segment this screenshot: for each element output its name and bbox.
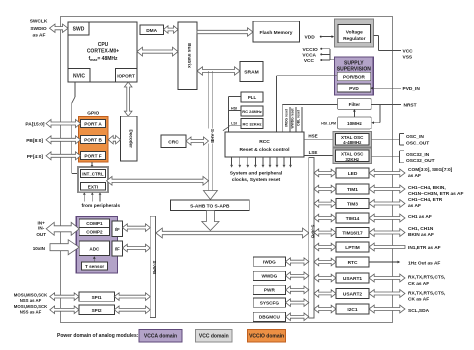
svg-text:CH1 as AF: CH1 as AF	[408, 214, 432, 220]
wire bus to USART1	[314, 274, 336, 282]
svg-text:HSI: HSI	[231, 107, 237, 111]
svg-text:ADC: ADC	[89, 246, 100, 251]
svg-text:INT_CTRL: INT_CTRL	[82, 172, 104, 177]
pin VDD	[305, 34, 335, 40]
USART2 block	[336, 289, 369, 299]
svg-text:NVIC: NVIC	[73, 74, 85, 80]
pins of USART2	[369, 290, 446, 303]
GPIO group label	[87, 111, 99, 117]
RC 32KHz block	[241, 119, 263, 129]
svg-text:OUT: OUT	[36, 232, 46, 237]
svg-text:POR/BOR: POR/BOR	[343, 75, 365, 80]
label HSI	[231, 107, 237, 111]
ADC I/F block	[112, 241, 123, 256]
pin labels IN+ IN- OUT	[36, 221, 46, 237]
svg-text:from peripherals: from peripherals	[82, 203, 121, 209]
COMP2 block	[79, 227, 109, 235]
svg-text:SWCLK: SWCLK	[30, 19, 48, 25]
bus S-AHB vertical	[203, 71, 217, 200]
svg-text:32KHz: 32KHz	[345, 157, 360, 162]
svg-text:VCCIO domain: VCCIO domain	[249, 334, 284, 340]
svg-text:CH1N~CH3N, ETR as AF: CH1N~CH3N, ETR as AF	[408, 191, 463, 197]
wire CPU to bus matrix	[137, 47, 178, 56]
wire SPI1 to bus	[114, 293, 150, 301]
pins VCCIO VCCA VCC	[302, 47, 334, 64]
pin VCC VSS output	[374, 36, 413, 61]
WWDG block	[253, 271, 285, 280]
svg-text:PLL: PLL	[248, 95, 257, 100]
svg-text:USART1: USART1	[343, 276, 363, 282]
svg-text:LSE: LSE	[309, 150, 318, 155]
svg-text:VCC domain: VCC domain	[199, 334, 229, 340]
svg-text:NRST: NRST	[404, 102, 417, 108]
pins of I2C1	[369, 305, 430, 314]
TIM16/17 block	[336, 228, 369, 238]
svg-text:Flash Memory: Flash Memory	[260, 30, 293, 36]
svg-text:RX,TX,RTS,CTS,: RX,TX,RTS,CTS,	[408, 274, 446, 280]
COMP1 block	[79, 219, 109, 227]
svg-text:TIM3: TIM3	[347, 202, 358, 208]
DBGMCU block	[253, 312, 285, 321]
wire bus to TIM14	[314, 214, 336, 222]
pins of RTC	[369, 261, 440, 267]
XTAL OSC 4-48MHz block	[333, 131, 372, 147]
svg-text:SPI1: SPI1	[92, 295, 102, 300]
wire COMP I/F to bus	[123, 224, 151, 232]
svg-text:S-APB: S-APB	[152, 261, 157, 275]
svg-text:MOSI,MISO,SCK: MOSI,MISO,SCK	[14, 304, 48, 309]
PORT F block	[81, 152, 106, 160]
wire PORT F pins arrow	[46, 152, 81, 160]
wire S-APB horizontal arrow	[156, 228, 309, 238]
svg-text:RX,TX,RTS,CTS,: RX,TX,RTS,CTS,	[408, 290, 446, 296]
SWD block	[68, 22, 89, 35]
SUPPLY SUPERVISION container	[334, 57, 373, 95]
svg-text:S-AHB TO S-APB: S-AHB TO S-APB	[190, 204, 230, 210]
legend caption	[57, 333, 139, 339]
SYSCFG block	[253, 298, 285, 307]
svg-text:DMA: DMA	[146, 28, 157, 34]
wire ADC I/F to bus	[123, 244, 151, 252]
PORT B block	[81, 136, 106, 144]
svg-text:PORT B: PORT B	[84, 138, 102, 143]
CRC block	[161, 135, 186, 148]
PWR block	[253, 285, 285, 294]
SRAM block	[240, 62, 263, 82]
wire bus to TIM16/17	[314, 229, 336, 237]
svg-text:OSC_IN: OSC_IN	[406, 134, 424, 140]
legend VCC domain	[196, 330, 233, 343]
wires system clocks arrows	[230, 157, 292, 168]
pins of LPTIM	[369, 243, 441, 251]
svg-text:PA[15:0]: PA[15:0]	[25, 122, 45, 128]
wire SPI2 to bus	[114, 306, 150, 314]
svg-text:RC 24MHz: RC 24MHz	[242, 109, 262, 114]
wire bus to TIM3	[314, 200, 336, 208]
wire 10MHz tap to NRST line	[371, 104, 380, 124]
Voltage Regulator block	[334, 19, 373, 47]
Bus matrix	[178, 22, 197, 90]
svg-text:WWDG reset: WWDG reset	[291, 108, 295, 129]
wire CRC to S-AHB	[186, 137, 209, 145]
svg-text:I/F: I/F	[115, 227, 120, 232]
pin NRST	[371, 102, 416, 108]
PVD block	[337, 84, 371, 92]
svg-text:SUPERVISION: SUPERVISION	[337, 67, 371, 73]
wire ADC input big arrow	[50, 240, 79, 255]
INT_CTRL EXTI grey container	[78, 167, 108, 192]
svg-text:Filter: Filter	[349, 102, 361, 107]
svg-text:LPTIM: LPTIM	[345, 245, 359, 251]
POR/BOR block	[337, 72, 371, 81]
svg-text:System and peripheral: System and peripheral	[230, 170, 283, 176]
IWDG block	[253, 257, 285, 266]
svg-text:CK as AF: CK as AF	[408, 296, 429, 302]
wire WWDG to bus	[286, 272, 309, 280]
wire PWR to bus	[286, 286, 309, 294]
bus S-APB left	[150, 216, 157, 317]
RCC block	[225, 132, 304, 157]
SPI2 block	[79, 305, 114, 314]
GPIO orange container	[78, 117, 108, 163]
label HSE	[308, 134, 317, 139]
svg-text:S-AHB: S-AHB	[210, 129, 215, 143]
wire bus to RTC	[314, 258, 336, 266]
svg-text:IWDG: IWDG	[263, 259, 276, 264]
wire DBGMCU to bus	[286, 313, 309, 321]
svg-text:WWDG: WWDG	[261, 274, 277, 279]
svg-text:IOPORT: IOPORT	[117, 74, 135, 79]
svg-text:CH1, CH1N: CH1, CH1N	[408, 226, 434, 232]
svg-text:HSE: HSE	[308, 134, 317, 139]
svg-text:DBGMCU: DBGMCU	[259, 315, 281, 320]
svg-text:IN-: IN-	[38, 226, 45, 231]
wire IOPORT to Decoder	[124, 82, 132, 116]
svg-text:SCL,SDA: SCL,SDA	[408, 308, 430, 314]
svg-text:10MHz: 10MHz	[347, 121, 363, 126]
svg-text:IWDG reset: IWDG reset	[285, 108, 289, 127]
HSI 10MHz osc block	[338, 117, 372, 129]
label LSE	[309, 150, 318, 155]
Flash Memory block	[253, 21, 300, 42]
wire NVIC to INT_CTRL	[72, 82, 78, 174]
svg-text:GPIO: GPIO	[87, 111, 99, 117]
svg-text:TIM1: TIM1	[347, 187, 358, 193]
svg-text:USART2: USART2	[343, 292, 363, 298]
svg-text:Decoder: Decoder	[128, 130, 133, 149]
svg-text:BKIN as AF: BKIN as AF	[408, 232, 434, 238]
svg-text:Regulator: Regulator	[343, 36, 366, 42]
svg-text:VCCA: VCCA	[302, 52, 316, 58]
labels IWDG WWDG OBL reset	[285, 108, 301, 129]
wire GPIO to INT_CTRL	[91, 162, 94, 167]
RC 24MHz block	[241, 106, 263, 116]
svg-text:I/F: I/F	[115, 246, 120, 251]
NVIC block	[68, 69, 90, 83]
pins of TIM14	[369, 214, 432, 222]
svg-text:SYSCFG: SYSCFG	[260, 300, 280, 305]
svg-text:Voltage: Voltage	[346, 30, 363, 36]
pin label 10xIN	[33, 246, 46, 251]
wire DMA to bus matrix	[164, 26, 179, 34]
wire POR/BOR reset to RCC	[277, 76, 338, 132]
label LSI	[231, 121, 237, 125]
svg-text:VSS: VSS	[403, 54, 413, 60]
label HSI_LPM	[321, 122, 336, 126]
svg-text:SWD: SWD	[73, 27, 85, 33]
svg-text:RC 32KHz: RC 32KHz	[242, 122, 261, 127]
legend VCCIO domain	[248, 330, 286, 343]
wire bus to TIM1	[314, 185, 336, 193]
svg-text:PVD_IN: PVD_IN	[403, 86, 421, 92]
TIM3 block	[336, 199, 369, 209]
svg-text:PORT A: PORT A	[84, 122, 102, 127]
svg-text:PB[8:0]: PB[8:0]	[26, 138, 43, 144]
ADC block	[79, 241, 109, 256]
pin PVD_IN	[370, 86, 420, 92]
svg-text:OSC32_OUT: OSC32_OUT	[406, 158, 435, 164]
label system clocks	[230, 170, 283, 183]
CPU block U1	[68, 22, 137, 82]
pin labels SPI2	[14, 304, 48, 314]
svg-text:as AF: as AF	[408, 173, 421, 179]
wires PLL RC to RCC	[223, 97, 241, 133]
wire filter to 10MHz	[353, 109, 356, 117]
wire IWDG to bus	[286, 258, 309, 266]
DMA block	[140, 25, 164, 35]
wire bus to USART2	[314, 290, 336, 298]
svg-text:T sensor: T sensor	[85, 264, 104, 269]
wire PORT A pins arrow	[46, 120, 81, 128]
bus S-APB right	[309, 158, 316, 319]
pins OSC_IN OSC_OUT	[372, 134, 430, 147]
svg-text:10xIN: 10xIN	[33, 246, 46, 251]
wire bus to LED	[314, 169, 336, 177]
svg-text:VDD: VDD	[305, 34, 316, 40]
svg-text:I2C1: I2C1	[347, 307, 357, 313]
wire bus matrix to SRAM	[197, 67, 240, 75]
svg-text:COMP1: COMP1	[86, 221, 103, 226]
COMP I/F block	[112, 221, 123, 237]
svg-text:CK as AF: CK as AF	[408, 281, 429, 287]
IOPORT block	[116, 69, 138, 83]
wire GPIO to Decoder	[108, 136, 120, 144]
svg-text:CH1~CH4, ETR: CH1~CH4, ETR	[408, 197, 443, 203]
svg-text:RCC: RCC	[259, 139, 270, 145]
svg-text:CORTEX-M0+: CORTEX-M0+	[87, 49, 119, 55]
wire bus to LPTIM	[314, 243, 336, 251]
PORT A block	[81, 120, 106, 128]
svg-text:CPU: CPU	[98, 42, 109, 48]
wires from peripherals to EXTI	[83, 192, 102, 201]
SPI1 block	[79, 292, 114, 301]
svg-text:VCC: VCC	[403, 48, 414, 54]
svg-text:Power domain of analog modules: Power domain of analog modules:	[57, 333, 139, 339]
pins of TIM3	[369, 197, 443, 209]
svg-text:COM[3:0], SEG[7:0]: COM[3:0], SEG[7:0]	[408, 167, 453, 173]
pins of TIM1	[369, 185, 463, 197]
pins of TIM16/17	[369, 226, 434, 238]
wire filter to RCC	[282, 104, 337, 132]
svg-text:LED: LED	[348, 171, 358, 177]
svg-text:1Hz Out as AF: 1Hz Out as AF	[408, 261, 440, 267]
wire LSE	[304, 154, 333, 156]
svg-text:PWR: PWR	[264, 288, 276, 293]
I2C1 block	[336, 304, 369, 314]
svg-text:TIM14: TIM14	[346, 216, 360, 222]
pins of USART1	[369, 274, 446, 287]
svg-text:clocks, System reset: clocks, System reset	[232, 177, 281, 183]
svg-text:XTAL OSC: XTAL OSC	[341, 151, 364, 156]
pins of LED	[369, 167, 453, 179]
EXTI block	[80, 183, 105, 191]
INT_CTRL block	[80, 170, 105, 178]
label from peripherals	[82, 203, 121, 209]
svg-text:LSI: LSI	[231, 121, 237, 125]
pin labels PA PB PF	[25, 122, 45, 161]
wire SPI1 pins arrow	[50, 293, 79, 301]
svg-text:EXTI: EXTI	[88, 184, 98, 189]
RTC block	[336, 257, 369, 267]
XTAL OSC 32KHz block	[333, 148, 372, 164]
svg-text:as AF: as AF	[33, 33, 46, 39]
svg-text:VCCA domain: VCCA domain	[144, 334, 177, 340]
svg-text:Bus matrix: Bus matrix	[186, 43, 192, 68]
PLL block	[241, 92, 263, 102]
wire SYSCFG to bus	[286, 299, 309, 307]
wire bus to I2C1	[314, 305, 336, 313]
wire SPI2 pins arrow	[50, 306, 79, 314]
legend VCCA domain	[139, 330, 182, 343]
svg-text:VCCIO: VCCIO	[302, 47, 317, 53]
svg-text:SRAM: SRAM	[244, 70, 258, 76]
Filter block	[338, 98, 372, 109]
wire SWD arrow	[50, 24, 69, 32]
SWCLK SWDIO pin labels	[30, 19, 48, 39]
T sensor block	[82, 262, 108, 270]
svg-text:CH1~CH4, BKIN,: CH1~CH4, BKIN,	[408, 185, 446, 191]
svg-text:SPI2: SPI2	[92, 308, 102, 313]
wire bus matrix to Flash	[197, 28, 253, 36]
svg-text:OSC32_IN: OSC32_IN	[406, 152, 430, 158]
svg-text:RTC: RTC	[348, 260, 358, 266]
svg-text:SWDIO: SWDIO	[30, 26, 47, 32]
svg-text:COMP2: COMP2	[86, 230, 103, 235]
svg-text:as AF: as AF	[408, 203, 421, 209]
wires IWDG WWDG OBL reset	[290, 107, 302, 132]
TIM14 block	[336, 213, 369, 223]
pin labels SPI1	[14, 293, 48, 303]
svg-text:PVD: PVD	[349, 86, 359, 91]
outer frame	[61, 17, 393, 323]
wire EXTI to S-AHB long arrow	[107, 176, 209, 185]
svg-text:PF[4:0]: PF[4:0]	[27, 154, 44, 160]
pins OSC32_IN OSC32_OUT	[372, 151, 435, 164]
svg-text:VCC: VCC	[304, 58, 315, 64]
svg-text:IN1,ETR as AF: IN1,ETR as AF	[408, 245, 441, 251]
svg-text:NSS as AF: NSS as AF	[20, 309, 42, 314]
svg-text:Reset & clock control: Reset & clock control	[239, 147, 290, 153]
wire HSE	[304, 138, 333, 140]
wire COMP pins big arrow	[46, 222, 79, 235]
S-AHB TO S-APB bridge block	[170, 200, 249, 211]
wire bridge thick down arrow	[202, 211, 219, 231]
svg-text:CRC: CRC	[168, 140, 179, 146]
analog VCCA container	[76, 217, 117, 274]
svg-text:NSS as AF: NSS as AF	[20, 298, 42, 303]
wire T sensor to ADC	[93, 256, 96, 262]
svg-text:PORT F: PORT F	[84, 154, 101, 159]
svg-text:HSI_LPM: HSI_LPM	[321, 122, 336, 126]
wire PORT B pins arrow	[46, 136, 81, 144]
svg-text:OSC_OUT: OSC_OUT	[406, 140, 429, 146]
LPTIM block	[336, 242, 369, 252]
Decoder block	[121, 116, 137, 161]
LED block	[336, 168, 369, 178]
TIM1 block	[336, 184, 369, 194]
svg-text:XTAL OSC: XTAL OSC	[341, 135, 364, 140]
svg-text:TIM16/17: TIM16/17	[342, 231, 363, 237]
svg-text:MOSI,MISO,SCK: MOSI,MISO,SCK	[14, 293, 48, 298]
USART1 block	[336, 273, 369, 283]
svg-text:OBL reset: OBL reset	[297, 109, 301, 126]
svg-text:4-48MHz: 4-48MHz	[343, 140, 362, 145]
